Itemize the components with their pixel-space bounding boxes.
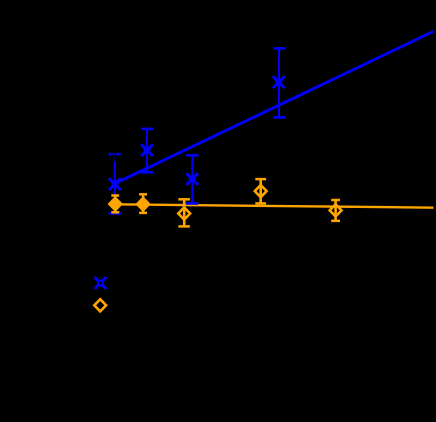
orange errorbar point 3 [178, 199, 190, 226]
blue errorbar point 3 [186, 155, 198, 203]
blue x marker 4 [273, 76, 285, 88]
blue x marker 3 [186, 173, 198, 185]
orange diamond marker 5 [330, 204, 342, 216]
blue errorbar point 2 [141, 129, 153, 172]
blue x marker 2 [141, 144, 153, 156]
orange diamond marker 4 [255, 185, 267, 197]
legend orange diamond marker [94, 299, 106, 311]
blue trend line [115, 31, 434, 183]
black text overlapping blue cap 1 [112, 152, 121, 161]
legend blue x marker [95, 277, 107, 289]
orange diamond marker 3 [178, 207, 190, 219]
orange errorbar point 5 [331, 200, 340, 221]
blue x marker 1 [109, 178, 121, 190]
orange diamond marker 1 [109, 198, 121, 210]
orange errorbar point 2 [139, 194, 147, 213]
blue errorbar point 4 [273, 48, 285, 117]
blue errorbar point 1 [109, 154, 121, 213]
orange errorbar point 4 [255, 179, 266, 203]
orange errorbar point 1 [111, 196, 119, 213]
orange diamond marker 2 [137, 198, 149, 210]
orange trend line [115, 204, 434, 207]
